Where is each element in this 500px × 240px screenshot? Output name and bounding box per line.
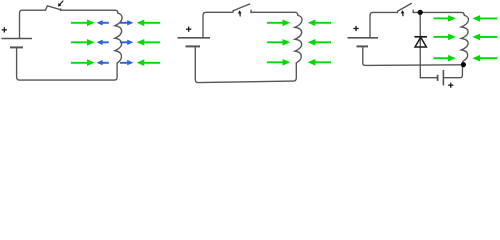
green field arrow inside row1 — [71, 20, 95, 27]
green field arrow outside row3 — [137, 59, 161, 66]
green field arrow inside row1 — [267, 20, 290, 27]
battery B1 long plate (+) — [2, 38, 33, 40]
wire: battery top to switch (circuit 3) — [370, 11, 398, 38]
battery B3 long plate (+) — [348, 37, 379, 39]
battery B1 plus label — [2, 27, 7, 32]
green field arrow outside row3 — [472, 55, 497, 62]
battery B4 long plate (+) — [442, 70, 444, 85]
inductor L2 coil (circuit 2) — [295, 15, 302, 62]
inductor L3 coil (circuit 3) — [461, 15, 468, 64]
switch S3 lever (open, circuit 3) — [398, 3, 412, 11]
battery B2 plus label — [186, 27, 191, 32]
switch S2 opening arrow (up) — [238, 10, 242, 16]
blue induced arrow inside row2 — [97, 40, 109, 45]
green field arrow inside row1 — [434, 15, 456, 22]
battery B4 plus label — [448, 83, 453, 88]
green field arrow outside row1 (points left) — [308, 20, 331, 27]
green field arrow inside row2 — [267, 39, 290, 46]
wire: left lower + bottom + right lower (circuit 2) — [195, 47, 296, 83]
switch S1 right contact tick — [60, 9, 62, 11]
wire: battery branch left segment — [420, 77, 437, 79]
green field arrow inside row3 — [71, 59, 95, 66]
switch S1 lever (closed, circuit 1) — [45, 6, 60, 10]
wire: left lower + bottom to junction (circuit 3) — [363, 47, 462, 66]
wire: battery top to switch (circuit 2) — [203, 11, 233, 38]
switch S1 closing arrow — [58, 1, 63, 7]
switch S3 right contact tick — [412, 10, 414, 13]
green field arrow inside row2 — [434, 34, 456, 41]
blue induced arrow inside row1 (points left) — [97, 20, 109, 25]
green field arrow outside row1 (points left) — [472, 15, 497, 22]
green field arrow outside row2 — [308, 39, 331, 46]
wire: left lower + bottom + right lower (circuit 1) — [17, 47, 118, 80]
green field arrow outside row3 — [308, 59, 331, 66]
wire: switch to top-right corner (circuit 3) — [413, 12, 464, 15]
green field arrow inside row3 — [267, 59, 290, 66]
junction node top (dot) — [418, 10, 423, 15]
battery B1 short plate (-) — [10, 46, 23, 48]
blue induced arrow inside row3 — [97, 60, 109, 65]
switch S2 lever (open, circuit 2) — [233, 4, 250, 11]
diode D1 triangle (anode, points up) — [415, 37, 426, 47]
switch S3 opening arrow (up) — [401, 10, 405, 16]
diode branch vertical wire — [419, 13, 421, 77]
battery B3 short plate (-) — [357, 45, 369, 47]
green field arrow inside row2 — [71, 39, 95, 46]
wire: switch to top-right corner (circuit 1) — [61, 10, 118, 13]
switch S2 right contact tick — [250, 10, 252, 13]
inductor L1 coil (circuit 1) — [115, 13, 122, 63]
junction node bottom-right (dot) — [461, 62, 466, 67]
blue induced arrow outside row1 (points right) — [120, 20, 133, 25]
green field arrow outside row2 — [137, 39, 161, 46]
battery B2 short plate (-) — [186, 45, 201, 47]
green field arrow outside row2 — [472, 34, 497, 41]
diode D1 bar (cathode) — [414, 36, 427, 38]
battery B2 long plate (+) — [178, 37, 211, 39]
green field arrow outside row1 (points left) — [137, 20, 161, 27]
green field arrow inside row3 — [434, 55, 456, 62]
battery B4 short plate (-) — [437, 75, 439, 81]
blue induced arrow outside row3 — [120, 60, 133, 65]
wire: switch to top-right corner (circuit 2) — [251, 12, 298, 15]
battery B3 plus label — [353, 26, 358, 31]
wire: battery top to switch (circuit 1) — [20, 10, 46, 38]
blue induced arrow outside row2 — [120, 40, 133, 45]
wire: battery branch right segment up to junction — [444, 66, 462, 78]
